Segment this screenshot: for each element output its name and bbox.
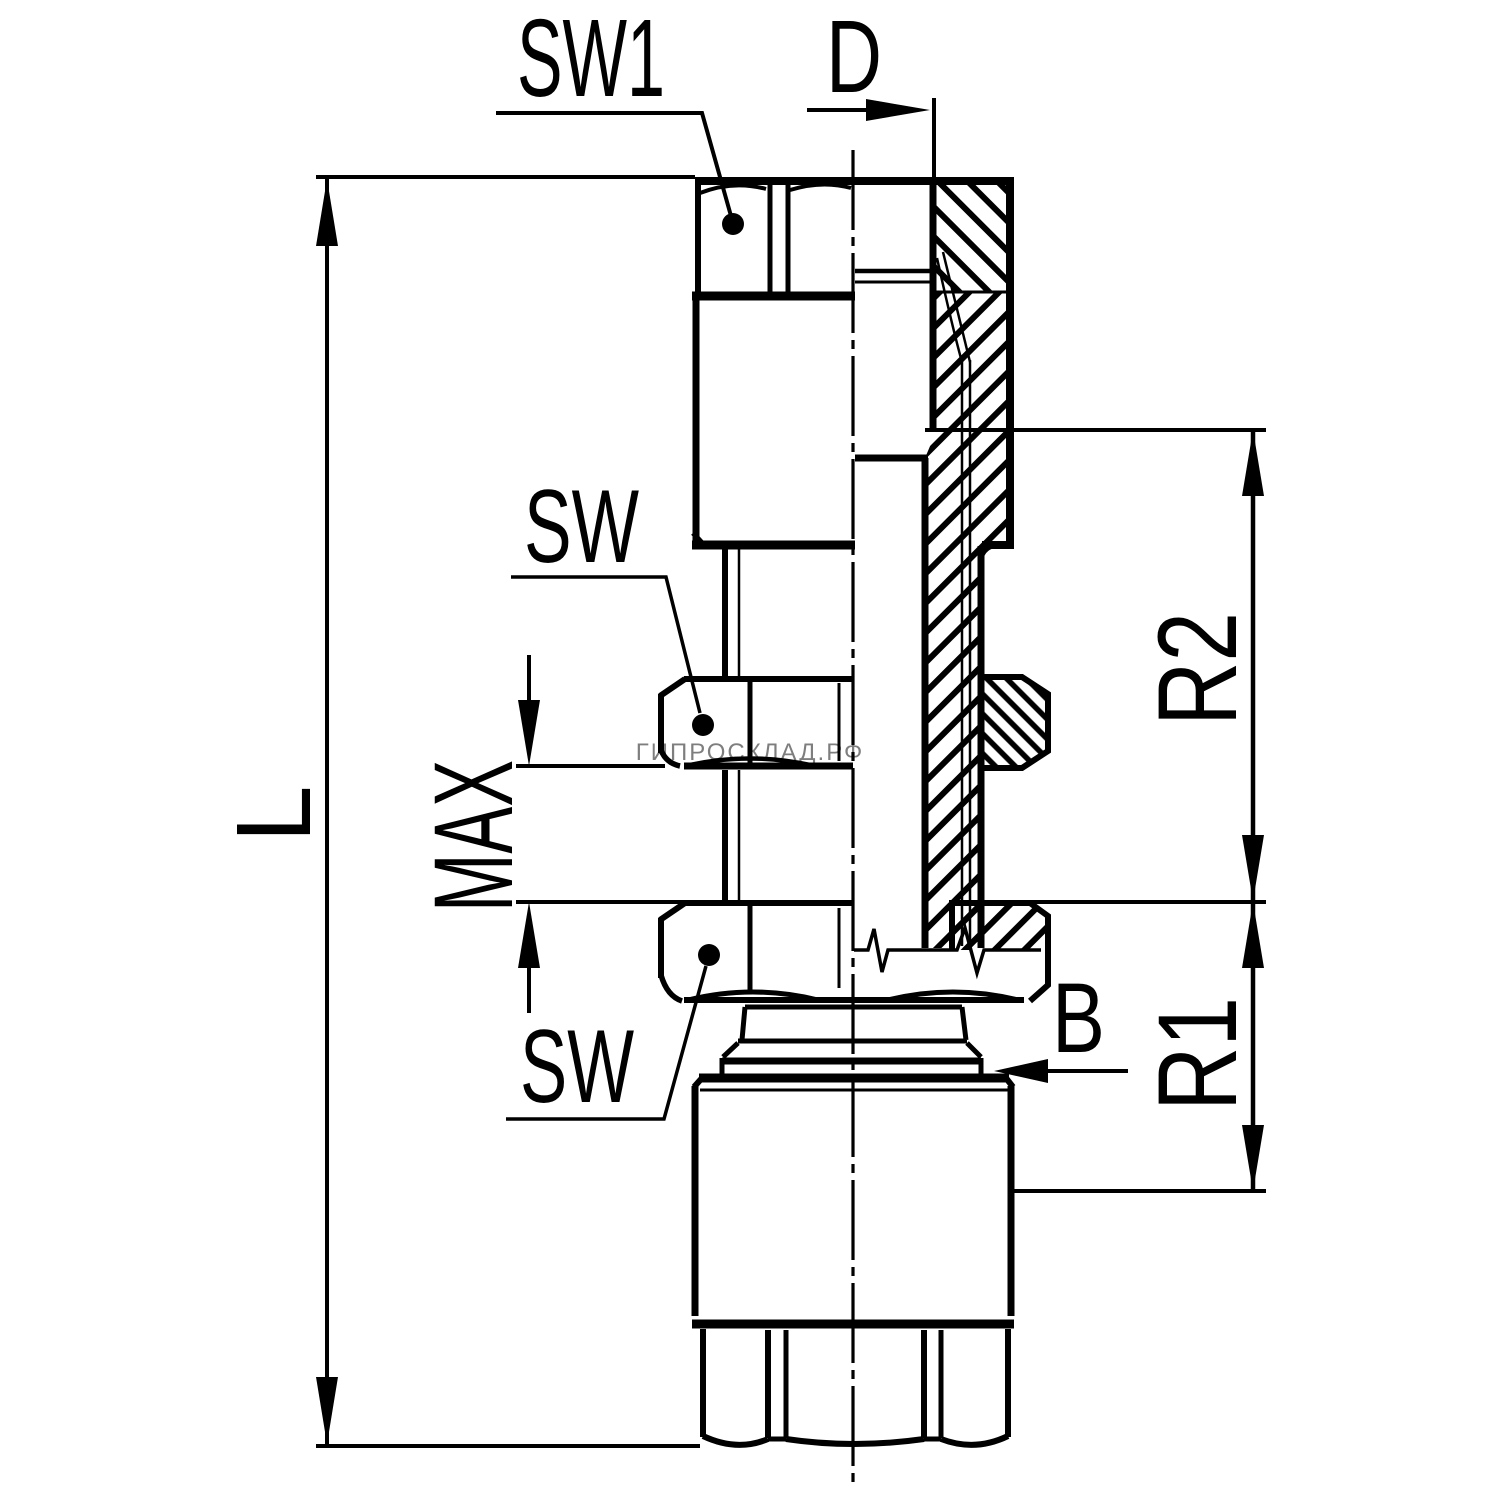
tube thread lines between nuts [722, 770, 728, 903]
upper lock nut: top edge front [684, 676, 853, 682]
top nut SW1: chamfer arcs [700, 185, 766, 193]
svg-text:MAX: MAX [411, 760, 536, 912]
bottom connector: chamfers [694, 1078, 702, 1087]
hatch: lower lock nut SW section upper part [952, 903, 1048, 950]
upper lock nut: left edge [658, 694, 664, 753]
bottom hex: right edge [1005, 1329, 1011, 1437]
olive ring band 1 [738, 1007, 967, 1041]
column left edge (bore wall) [922, 458, 929, 948]
label SW lower: leader [506, 966, 706, 1119]
internal thread lines [961, 360, 964, 946]
dimension MAX: extension lines [516, 764, 665, 768]
dimension R1: extension line [1010, 1189, 1266, 1193]
top nut / body boundary in section [936, 291, 1008, 294]
bottom connector: top edge [699, 1074, 1009, 1083]
svg-text:SW: SW [520, 1009, 634, 1125]
top nut SW1: thread end lines [855, 269, 933, 274]
lower lock nut: chamfer [660, 903, 685, 920]
svg-text:R2: R2 [1135, 612, 1260, 726]
dimension D: extension line [932, 98, 936, 177]
dimension L: arrows [316, 179, 338, 246]
thread runout curves [937, 258, 962, 362]
thread runout arc at column top [981, 546, 994, 562]
centerline [851, 150, 854, 1488]
top nut SW1: bottom edge (front view) [692, 292, 855, 301]
right outer edge of nut and collar [1006, 177, 1014, 546]
collar: bottom-left chamfer [693, 533, 704, 545]
bottom hex: bottom chamfer arcs [703, 1436, 768, 1445]
dimension R1: dim line [1251, 902, 1256, 1191]
svg-text:L: L [215, 786, 333, 843]
hatch: upper lock nut SW section [984, 677, 1048, 768]
svg-text:B: B [1052, 962, 1105, 1073]
dimension B: arrow [1046, 1069, 1128, 1073]
collar: bottom edge [692, 541, 855, 550]
upper lock nut: bottom [661, 750, 680, 766]
tube thread lines upper segment [722, 549, 728, 677]
bottom connector: right edge [1008, 1086, 1015, 1316]
dimension R2: dim line [1251, 430, 1256, 901]
collar: left edge [693, 296, 700, 541]
olive ring band 3 [722, 1058, 981, 1074]
label SW1: leader [496, 113, 731, 216]
top nut SW1: top edge [695, 177, 1012, 185]
lower lock nut: left edge [658, 918, 664, 978]
lower lock nut section outline [952, 903, 1048, 1001]
lower lock nut: corner facet [838, 908, 841, 988]
upper lock nut: corner facet [838, 683, 841, 761]
dimension L: extension lines [316, 175, 695, 179]
lower lock nut: facet [748, 906, 753, 991]
upper lock nut section outline [984, 677, 1048, 768]
dimension D: arrow line [807, 108, 872, 112]
bore step [855, 455, 928, 462]
lower lock nut: bottom [661, 975, 682, 1001]
svg-text:D: D [826, 0, 882, 114]
bottom hex: left edge [700, 1329, 706, 1437]
svg-text:SW: SW [524, 469, 639, 585]
top nut SW1: facet lines [768, 184, 773, 293]
hatch: top swivel nut section (right half) [936, 184, 1009, 291]
break lines (thread break) [854, 928, 1041, 973]
svg-text:R1: R1 [1135, 997, 1260, 1111]
bottom connector: left edge [692, 1086, 699, 1316]
bottom connector: bottom edge [692, 1320, 1014, 1329]
hatch: body flange and threaded column (section) [925, 292, 1009, 948]
olive ring band 2 [723, 1043, 981, 1057]
dimension MAX: stems and arrows [527, 655, 531, 712]
label SW upper: leader [511, 577, 700, 713]
column right edge [978, 546, 985, 948]
dimension L: dim line [325, 179, 329, 1444]
upper lock nut: chamfer [660, 679, 685, 696]
dimension R2: extension lines [925, 428, 1266, 432]
svg-text:SW1: SW1 [517, 0, 665, 120]
lower lock nut: top edge front [684, 900, 853, 906]
upper lock nut: facet [748, 681, 753, 764]
bottom hex: facet lines [765, 1330, 771, 1438]
top nut SW1: left edge [695, 181, 701, 296]
collar: step under flange (section) [982, 541, 1014, 549]
top nut SW1: bore wall in section [930, 181, 937, 430]
